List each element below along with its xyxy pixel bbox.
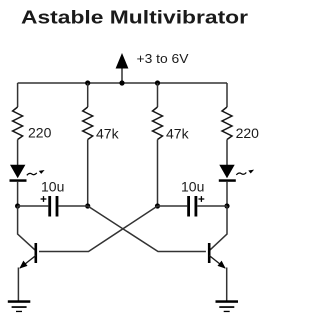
wire: cross-coupling right 47k node to left transistor base [39,206,158,252]
svg-text:Astable Multivibrator: Astable Multivibrator [21,7,248,28]
svg-text:10u: 10u [41,179,64,195]
transistor Q2 (right NPN) [209,243,226,269]
svg-text:10u: 10u [181,179,204,195]
node: left collector junction dot [15,203,20,208]
node: right 47k bottom junction dot [155,203,160,208]
wire: right emitter down to ground [226,268,228,302]
wire: rail down to right 47k [157,83,159,107]
capacitor 10u (right) [187,196,197,217]
LED light arrow (left) [27,170,45,175]
wire: cross-coupling left 47k node to right transistor base [88,206,206,252]
wire: right 220 to right LED [226,140,228,166]
wire: left LED cathode to collector node [17,182,19,206]
wire: left collector node down to transistor [18,206,36,250]
LED light arrow (right) [236,170,254,175]
wire: right collector node down to transistor [210,206,228,250]
node: junction dot rail / left 47k [85,80,90,85]
resistor 47k (right) [153,107,163,140]
wire: left collector node to left capacitor [18,205,49,207]
wire: top supply rail [18,82,227,84]
LED (right) [219,165,236,182]
node: junction dot rail / right 47k [155,80,160,85]
ground (right) [216,300,239,312]
resistor 47k (left) [83,107,93,140]
wire: right LED cathode to collector node [226,182,228,206]
svg-text:220: 220 [236,125,260,141]
capacitor 10u (left) [48,196,58,217]
node: left 47k bottom junction dot [85,203,90,208]
transistor Q1 (left NPN) [19,243,36,269]
wire: left 220 to left LED [17,140,19,166]
svg-text:47k: 47k [166,126,190,142]
resistor 220 (right) [222,107,232,140]
svg-text:47k: 47k [96,126,120,142]
wire: rail down to right 220 [226,83,228,107]
node: right collector junction dot [224,203,229,208]
ground (left) [8,300,31,312]
wire: left capacitor to left 47k node [58,205,87,207]
svg-text:220: 220 [28,125,52,141]
wire: right capacitor to right collector node [197,205,227,207]
node: junction dot at power arrow on rail [119,80,124,85]
wire: rail down to left 47k [87,83,89,107]
svg-text:+3 to 6V: +3 to 6V [137,51,189,66]
LED (left) [10,165,27,182]
resistor 220 (left) [13,107,23,140]
wire: right 47k node to right capacitor [158,205,188,207]
wire: left 47k down to node [87,140,89,207]
wire: rail down to left 220 [17,83,19,107]
wire: right 47k down to node [157,140,159,207]
label: + polarity (right cap) [199,196,205,202]
wire: left emitter down to ground [17,268,19,302]
power symbol: +3 to 6V supply arrow [116,53,129,83]
label: + polarity (left cap) [41,196,47,202]
